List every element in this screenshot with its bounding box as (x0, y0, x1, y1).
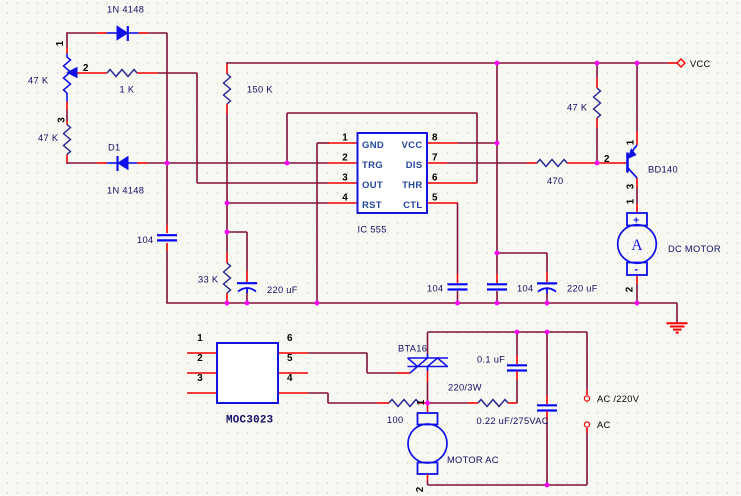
svg-text:104: 104 (137, 235, 153, 245)
svg-text:1: 1 (626, 198, 637, 204)
svg-text:AC /220V: AC /220V (597, 394, 640, 404)
svg-text:-: - (635, 264, 639, 276)
svg-text:3: 3 (57, 117, 68, 123)
svg-text:BD140: BD140 (648, 165, 678, 175)
svg-text:3: 3 (626, 183, 637, 189)
svg-text:3: 3 (197, 373, 203, 384)
svg-text:47 K: 47 K (28, 76, 49, 86)
svg-text:AC: AC (597, 420, 611, 430)
svg-text:5: 5 (432, 193, 438, 204)
svg-text:DIS: DIS (406, 160, 423, 171)
svg-text:0.22 uF/275VAC: 0.22 uF/275VAC (477, 416, 549, 426)
svg-text:47 K: 47 K (38, 133, 59, 143)
svg-text:1N 4148: 1N 4148 (107, 5, 144, 15)
svg-text:220/3W: 220/3W (448, 383, 482, 393)
svg-text:6: 6 (432, 173, 438, 184)
svg-text:THR: THR (402, 180, 422, 191)
svg-text:2: 2 (415, 486, 426, 492)
svg-text:VCC: VCC (690, 59, 711, 69)
svg-text:VCC: VCC (402, 140, 423, 151)
svg-text:1: 1 (197, 333, 203, 344)
svg-text:100: 100 (387, 415, 403, 425)
svg-text:+: + (633, 216, 639, 227)
svg-text:A: A (631, 237, 643, 254)
svg-text:1: 1 (416, 399, 427, 405)
svg-text:2: 2 (604, 154, 610, 165)
svg-text:DC MOTOR: DC MOTOR (668, 244, 721, 254)
svg-text:150 K: 150 K (247, 85, 273, 95)
svg-text:IC 555: IC 555 (358, 225, 387, 235)
svg-text:MOTOR AC: MOTOR AC (447, 455, 499, 465)
svg-text:104: 104 (427, 284, 443, 294)
svg-text:OUT: OUT (362, 180, 383, 191)
svg-text:2: 2 (197, 353, 203, 364)
svg-text:220 uF: 220 uF (567, 284, 598, 294)
svg-text:6: 6 (287, 333, 293, 344)
svg-text:2: 2 (342, 153, 348, 164)
svg-text:3: 3 (342, 173, 348, 184)
svg-text:2: 2 (83, 63, 89, 74)
svg-text:RST: RST (362, 200, 382, 211)
svg-text:220 uF: 220 uF (267, 285, 298, 295)
svg-text:1: 1 (55, 40, 66, 46)
svg-text:4: 4 (287, 373, 293, 384)
svg-text:8: 8 (432, 133, 438, 144)
svg-text:1 K: 1 K (120, 85, 135, 95)
svg-text:1: 1 (626, 139, 637, 145)
svg-text:D1: D1 (108, 143, 120, 153)
svg-text:MOC3023: MOC3023 (226, 415, 273, 427)
svg-text:GND: GND (362, 140, 384, 151)
svg-text:4: 4 (342, 193, 348, 204)
svg-text:33 K: 33 K (198, 275, 219, 285)
svg-text:47 K: 47 K (567, 103, 588, 113)
svg-text:1: 1 (342, 133, 348, 144)
svg-text:7: 7 (432, 153, 438, 164)
svg-text:0.1 uF: 0.1 uF (477, 355, 505, 365)
svg-text:BTA16: BTA16 (398, 344, 427, 354)
svg-text:2: 2 (625, 286, 636, 292)
svg-text:CTL: CTL (403, 200, 422, 211)
svg-text:5: 5 (287, 353, 293, 364)
svg-text:470: 470 (547, 176, 563, 186)
svg-text:1N 4148: 1N 4148 (107, 186, 144, 196)
svg-text:104: 104 (517, 284, 533, 294)
svg-text:TRG: TRG (362, 160, 383, 171)
